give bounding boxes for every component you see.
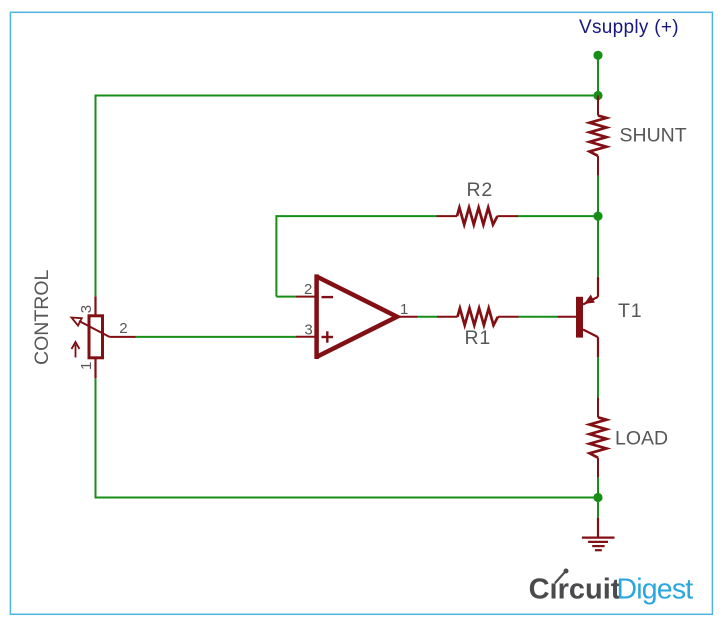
wire R1 to T1 base bbox=[519, 316, 558, 318]
svg-text:2: 2 bbox=[304, 281, 312, 298]
junction ground node bbox=[593, 493, 602, 502]
ground bbox=[582, 518, 615, 551]
wire R2 left segment bbox=[276, 215, 436, 217]
svg-text:1: 1 bbox=[400, 301, 408, 318]
wire ground junction to ground pin bbox=[597, 498, 599, 518]
wire bottom horizontal bbox=[96, 497, 599, 499]
svg-text:Vsupply (+): Vsupply (+) bbox=[579, 17, 679, 38]
svg-text:R2: R2 bbox=[467, 179, 494, 201]
wire LOAD to ground junction bbox=[597, 478, 599, 498]
svg-text:CırcuitDigest: CırcuitDigest bbox=[529, 574, 694, 606]
wire feedback vertical bbox=[275, 215, 277, 297]
resistor SHUNT bbox=[590, 96, 607, 176]
junction top node bbox=[593, 91, 602, 100]
wire supply pin to top junction bbox=[597, 55, 599, 95]
svg-text:SHUNT: SHUNT bbox=[620, 125, 687, 147]
resistor R1 bbox=[437, 308, 519, 325]
svg-text:LOAD: LOAD bbox=[615, 428, 668, 450]
op-amp bbox=[296, 274, 418, 359]
wire pot wiper to op-amp pin 3 bbox=[136, 336, 297, 338]
svg-text:3: 3 bbox=[304, 321, 312, 338]
wire left vertical lower bbox=[95, 378, 97, 498]
wire R2 junction to T1 emitter bbox=[597, 216, 599, 277]
svg-text:CONTROL: CONTROL bbox=[31, 270, 53, 365]
svg-text:2: 2 bbox=[119, 320, 127, 337]
transistor T1 (PNP) bbox=[557, 277, 598, 357]
logo CircuitDigest bbox=[529, 569, 694, 606]
resistor R2 bbox=[437, 208, 519, 225]
wire top horizontal bbox=[96, 95, 599, 97]
junction R2 node bbox=[593, 212, 602, 221]
svg-text:R1: R1 bbox=[465, 327, 492, 349]
wire shunt to R2 junction bbox=[597, 176, 599, 216]
wire T1 collector to LOAD bbox=[597, 357, 599, 397]
resistor LOAD bbox=[590, 397, 607, 477]
svg-text:3: 3 bbox=[78, 305, 95, 313]
wire to op-amp pin 2 bbox=[276, 296, 296, 298]
wire op-amp output to R1 bbox=[418, 316, 438, 318]
supply pin dot bbox=[593, 51, 602, 60]
svg-text:1: 1 bbox=[78, 362, 95, 370]
svg-text:T1: T1 bbox=[618, 300, 642, 322]
potentiometer CONTROL bbox=[72, 296, 136, 378]
wire left vertical upper bbox=[95, 95, 97, 297]
wire R2 right segment bbox=[518, 215, 598, 217]
